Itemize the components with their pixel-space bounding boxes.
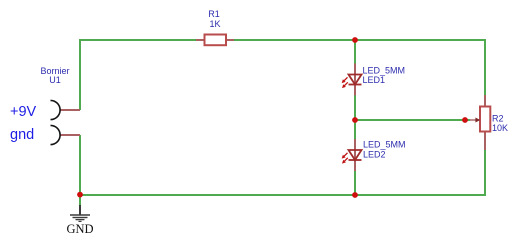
connector U1 pin lead +9V	[60, 109, 80, 111]
potentiometer R2 leads	[484, 95, 486, 150]
potentiometer R2 value 10K	[492, 123, 508, 133]
resistor R1 value 1K	[209, 19, 220, 29]
LED D1 (LED1) symbol	[342, 64, 362, 96]
junction dot at middle LED branch	[352, 117, 358, 123]
svg-text:1K: 1K	[209, 19, 220, 29]
LED1 reference label	[363, 75, 386, 85]
svg-text:10K: 10K	[492, 123, 508, 133]
svg-text:U1: U1	[49, 75, 61, 85]
resistor R1 leads	[196, 39, 234, 41]
wire middle horizontal to R2 wiper	[355, 119, 470, 121]
junction dot at top rail / LED branch	[352, 37, 358, 43]
svg-text:LED_5MM: LED_5MM	[363, 65, 406, 75]
LED2 name label LED_5MM	[363, 140, 406, 150]
wire ground net: left drop, bottom rail, right rise to R2	[80, 135, 485, 195]
net label +9V	[10, 104, 37, 120]
potentiometer R2 label	[492, 114, 504, 124]
ground symbol	[70, 195, 90, 221]
svg-text:LED2: LED2	[363, 150, 386, 160]
LED2 reference label	[363, 150, 386, 160]
junction dot at bottom rail / LED branch	[352, 192, 358, 198]
connector U1 pin arc gnd	[51, 125, 61, 144]
svg-text:+9V: +9V	[10, 104, 37, 120]
wire LED branch vertical x=355	[354, 40, 356, 195]
resistor R1 label	[208, 9, 220, 19]
connector U1 reference label	[49, 75, 61, 85]
resistor R1 body	[205, 35, 227, 46]
svg-text:gnd: gnd	[10, 127, 34, 143]
LED1 name label LED_5MM	[363, 65, 406, 75]
ground label GND	[66, 222, 93, 236]
connector U1 name label Bornier	[40, 66, 69, 76]
potentiometer R2 wiper arrow	[470, 118, 480, 123]
net label gnd	[10, 127, 34, 143]
potentiometer R2 body	[480, 107, 490, 132]
connector U1 pin arc +9V	[51, 100, 61, 119]
svg-text:R2: R2	[492, 114, 504, 124]
wire +9V net: left drop, top rail, right drop to R2	[80, 40, 485, 110]
connector U1 pin lead gnd	[60, 134, 80, 136]
LED D2 (LED2) symbol	[342, 139, 362, 171]
junction dot at ground	[77, 192, 83, 198]
svg-text:R1: R1	[208, 9, 220, 19]
svg-text:GND: GND	[66, 222, 93, 236]
svg-text:LED1: LED1	[363, 75, 386, 85]
svg-text:LED_5MM: LED_5MM	[363, 140, 406, 150]
junction dot at R2 wiper	[462, 117, 468, 123]
